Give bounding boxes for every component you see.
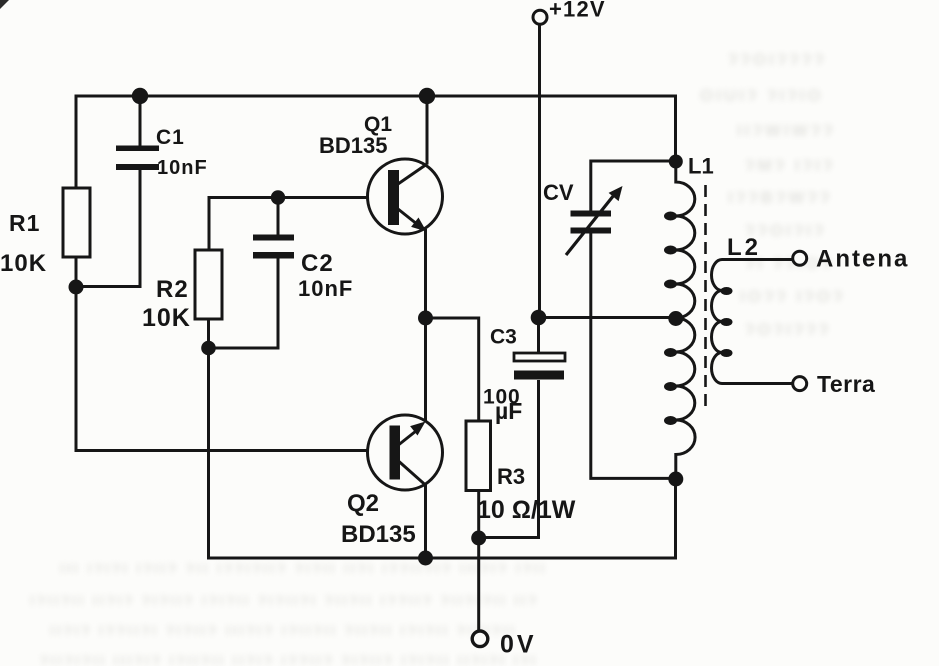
wire Q1 base line from R2 top	[209, 198, 368, 251]
svg-text:R1: R1	[9, 210, 40, 236]
svg-text:L1: L1	[688, 154, 714, 179]
wire +12V feed line	[538, 25, 541, 318]
L2 loop curls	[721, 287, 733, 357]
terminal 0V	[472, 631, 488, 647]
node junction +12V / C3 / L1 tap	[531, 310, 547, 326]
wire CV bottom lead	[591, 234, 676, 479]
svg-text:µF: µF	[495, 398, 522, 424]
wire C3 top lead	[537, 318, 540, 353]
wire C1 top lead	[139, 96, 142, 146]
wire C3 bottom lead	[479, 380, 539, 538]
transistor Q2	[368, 415, 443, 558]
node junction L1 top	[669, 155, 683, 169]
L1 loop curls	[664, 212, 677, 426]
resistor R3	[466, 421, 491, 491]
svg-text:+12V: +12V	[549, 0, 606, 22]
svg-text:CV: CV	[543, 180, 574, 205]
svg-text:0V: 0V	[500, 631, 537, 659]
node junction base Q1 / C2	[271, 190, 285, 204]
svg-text:C1: C1	[156, 126, 185, 149]
capacitor C1	[116, 146, 159, 171]
wire R3 bottom lead to 0V	[477, 491, 480, 631]
svg-text:10 Ω/1W: 10 Ω/1W	[477, 496, 576, 524]
core dashed line	[704, 185, 707, 412]
svg-text:R3: R3	[497, 464, 525, 489]
node junction Q1 collector / top rail	[419, 88, 435, 104]
wire emitter node to R3	[426, 318, 479, 421]
corner mark	[0, 0, 9, 9]
wire C1 bottom lead	[76, 170, 140, 287]
svg-text:BD135: BD135	[341, 521, 416, 548]
wire R2 bottom lead and bottom rail to L1 bottom	[209, 319, 676, 558]
svg-text:BD135: BD135	[319, 133, 387, 158]
svg-text:10nF: 10nF	[157, 157, 208, 179]
node junction R2 / C2	[201, 341, 216, 356]
resistor R2	[195, 250, 222, 319]
resistor R1	[63, 188, 90, 257]
svg-text:10K: 10K	[142, 304, 191, 332]
svg-text:L2: L2	[727, 234, 761, 261]
capacitor C2	[253, 235, 294, 259]
transistor Q1	[368, 159, 443, 234]
wire top rail from R1 top to L1 top	[76, 96, 676, 188]
svg-text:C2: C2	[301, 250, 334, 277]
wire emitters trunk Q1-Q2	[424, 229, 427, 423]
svg-text:Q2: Q2	[347, 490, 379, 517]
inductor L1	[676, 162, 695, 480]
svg-text:R2: R2	[156, 276, 189, 303]
inductor L2	[712, 260, 793, 384]
node junction R3 / C3	[471, 531, 486, 546]
wire Q1 collector lead	[426, 96, 429, 165]
bleed-through ghost text (decorative)	[728, 50, 827, 70]
node junction C1 / top rail	[132, 88, 148, 104]
svg-text:10nF: 10nF	[298, 276, 353, 301]
node junction emitters	[418, 311, 433, 326]
node junction R1/C1	[69, 280, 84, 295]
terminal Antena	[793, 251, 807, 265]
wire to L1 center tap	[539, 316, 676, 319]
wire R1 bottom lead down and base line to Q2	[76, 257, 368, 451]
node junction Q2 collector / bottom rail	[418, 551, 433, 566]
svg-text:Terra: Terra	[817, 371, 875, 397]
terminal Terra	[793, 377, 807, 391]
svg-text:Antena: Antena	[816, 246, 909, 273]
node junction L1 center tap	[668, 311, 683, 326]
variable capacitor CV	[566, 186, 623, 255]
terminal +12V	[533, 10, 547, 24]
svg-text:10K: 10K	[0, 250, 47, 277]
wire C2 bottom lead	[209, 259, 279, 349]
wire C2 top lead	[277, 198, 280, 236]
svg-text:C3: C3	[490, 326, 517, 349]
node junction L1 bottom	[668, 472, 683, 487]
wire CV top lead	[591, 161, 676, 211]
capacitor C3 electrolytic	[514, 353, 565, 380]
